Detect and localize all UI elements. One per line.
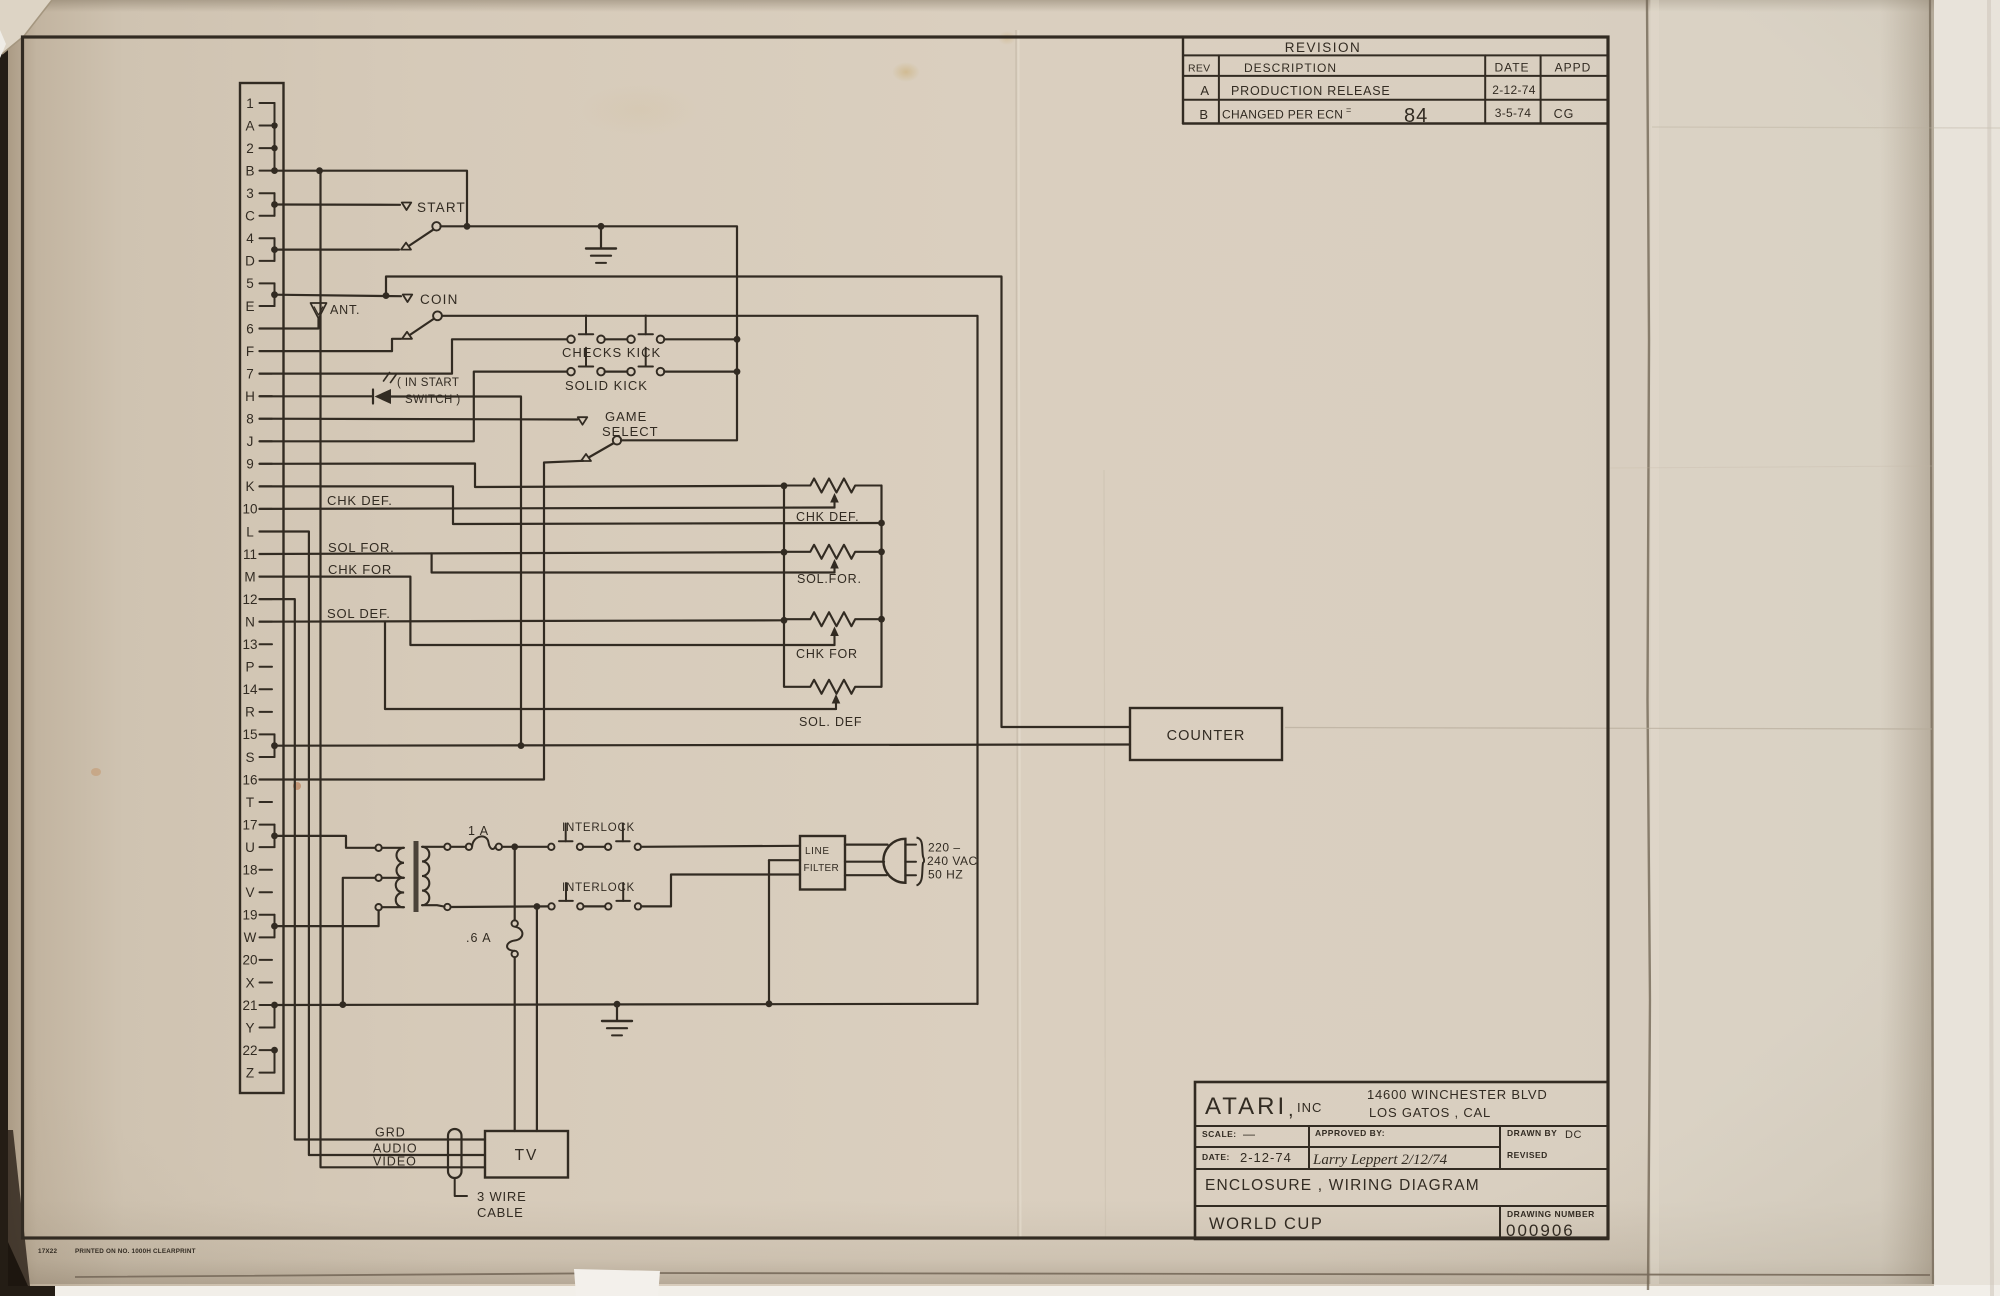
power ground bus: [275, 1004, 978, 1005]
svg-text:5: 5: [246, 276, 254, 291]
svg-text:D: D: [245, 254, 255, 269]
wire pin 3/C to START throw: [275, 203, 401, 206]
svg-text:CHK FOR: CHK FOR: [328, 562, 392, 577]
svg-text:Y: Y: [245, 1020, 254, 1035]
svg-text:,: ,: [1288, 1099, 1294, 1121]
horizontal creases: [1285, 728, 1932, 730]
svg-text:Larry Leppert 2/12/74: Larry Leppert 2/12/74: [1312, 1152, 1448, 1168]
svg-text:CHK DEF.: CHK DEF.: [796, 510, 859, 524]
svg-text:SOL DEF.: SOL DEF.: [327, 606, 391, 621]
node GAME SELECT label marker: [578, 417, 588, 425]
paper right edge: [1930, 0, 1933, 1284]
svg-text:CHANGED PER ECN: CHANGED PER ECN: [1222, 108, 1343, 122]
svg-text:SELECT: SELECT: [602, 424, 659, 439]
wire net B video drop to TV: [321, 171, 486, 1168]
svg-text:2: 2: [246, 141, 254, 156]
svg-text:3: 3: [246, 186, 254, 201]
wire pin 5/E to COIN marker and counter feed: [275, 295, 402, 297]
switch GAME SELECT: [581, 454, 591, 461]
svg-text:SOLID KICK: SOLID KICK: [565, 378, 648, 393]
svg-text:000906: 000906: [1506, 1221, 1575, 1240]
svg-text:22: 22: [242, 1043, 257, 1058]
brace for mains label: [917, 838, 925, 886]
cable grommet: [448, 1129, 462, 1178]
svg-text:14: 14: [242, 682, 258, 697]
svg-text:DATE: DATE: [1494, 61, 1529, 75]
ground at START output: [600, 226, 602, 248]
wire fuse F2 to TV: [514, 957, 516, 1131]
svg-text:REV: REV: [1188, 63, 1211, 75]
svg-text:ENCLOSURE , WIRING DIAGRAM: ENCLOSURE , WIRING DIAGRAM: [1205, 1177, 1480, 1194]
svg-text:CHK FOR: CHK FOR: [796, 647, 858, 661]
svg-text:A: A: [1200, 83, 1209, 98]
svg-text:220 –: 220 –: [928, 841, 961, 855]
wire LED to counter lower feed: [391, 397, 521, 746]
svg-text:R: R: [245, 705, 255, 720]
potentiometer network left rail: [783, 486, 785, 687]
wire pin 4/D to START blade: [275, 249, 400, 251]
svg-text:INTERLOCK: INTERLOCK: [562, 882, 635, 894]
bracket pins 15-S: [274, 734, 276, 757]
svg-text:X: X: [245, 975, 254, 990]
bracket pins 22-Z: [274, 1050, 276, 1073]
node START label marker: [402, 203, 412, 211]
wire SOLID KICK to node: [664, 371, 737, 373]
title block: [1195, 1082, 1608, 1239]
wire coin-net to COUNTER upper: [386, 277, 1130, 728]
svg-text:REVISION: REVISION: [1285, 40, 1362, 55]
wire COIN common to power bus: [442, 316, 978, 1004]
svg-text:K: K: [245, 479, 254, 494]
wire 3 wire cable callout: [455, 1178, 467, 1196]
wire pin 11 to pot left rail: [260, 552, 785, 554]
wire pin 17/U to transformer primary top: [275, 836, 376, 848]
svg-text:A: A: [245, 118, 254, 133]
svg-text:Z: Z: [246, 1065, 254, 1080]
wire pin 11 branch to SOL FOR wiper: [432, 554, 835, 573]
svg-text:V: V: [245, 885, 254, 900]
svg-text:( IN START: ( IN START: [397, 377, 459, 389]
transformer T1 terminals: [375, 845, 381, 851]
svg-text:B: B: [245, 163, 254, 178]
svg-text:PRODUCTION RELEASE: PRODUCTION RELEASE: [1231, 84, 1391, 98]
wire pin L to TV audio drop: [260, 532, 486, 1156]
transformer T1 core: [414, 841, 419, 912]
svg-text:GAME: GAME: [605, 409, 647, 424]
connector J1: [240, 83, 284, 1093]
revision table: [1182, 37, 1184, 124]
svg-text:INTERLOCK: INTERLOCK: [562, 822, 635, 834]
dark bottom-left corner: [8, 1130, 30, 1286]
svg-text:C: C: [245, 209, 255, 224]
switch COIN: [402, 332, 412, 339]
svg-text:DC: DC: [1565, 1129, 1582, 1141]
svg-text:18: 18: [242, 863, 257, 878]
svg-text:U: U: [245, 840, 255, 855]
switch CHECKS KICK: [567, 336, 575, 344]
wires line filter to plug: [845, 843, 888, 845]
wire pin N to pot left rail: [260, 620, 785, 621]
svg-text:N: N: [245, 614, 255, 629]
svg-text:COUNTER: COUNTER: [1167, 728, 1246, 744]
wire pin F to COIN blade: [260, 339, 402, 351]
svg-text:PRINTED ON NO. 1000H CLEARPRIN: PRINTED ON NO. 1000H CLEARPRINT: [75, 1248, 196, 1255]
svg-text:COIN: COIN: [420, 292, 459, 307]
svg-text:APPD: APPD: [1555, 61, 1592, 75]
svg-text:H: H: [245, 389, 255, 404]
fold crease vertical dark: [1647, 0, 1650, 1290]
svg-text:LOS GATOS , CAL: LOS GATOS , CAL: [1369, 1105, 1491, 1120]
svg-text:50 HZ: 50 HZ: [928, 868, 963, 882]
svg-text:20: 20: [242, 953, 257, 968]
counter COUNTER: [1130, 708, 1282, 760]
svg-text:1: 1: [246, 96, 254, 111]
svg-text:11: 11: [243, 547, 257, 562]
plug P1: [883, 839, 905, 883]
wire line filter to bus: [769, 859, 800, 861]
svg-text:17: 17: [242, 817, 257, 832]
svg-text:8: 8: [246, 412, 254, 427]
svg-text:7: 7: [246, 366, 254, 381]
bracket pins 17-U: [274, 825, 276, 848]
svg-text:1 A: 1 A: [468, 824, 489, 838]
svg-text:J: J: [247, 434, 254, 449]
wire pin K to pot right rail: [260, 486, 882, 524]
switch START: [401, 243, 411, 250]
bracket pins 19-W: [274, 915, 276, 938]
svg-text:84: 84: [1404, 105, 1428, 127]
svg-text:3 WIRE: 3 WIRE: [477, 1189, 527, 1204]
transformer T1 primary winding: [382, 847, 404, 849]
bracket pins 4-D: [274, 238, 276, 261]
svg-text:M: M: [244, 569, 255, 584]
svg-text:9: 9: [246, 457, 254, 472]
wire interlock 1 to line filter: [641, 846, 800, 847]
antenna ANT: [260, 319, 319, 329]
white sliver bottom-center: [574, 1269, 660, 1296]
wire net B to START common and GAME SELECT common: [275, 171, 468, 226]
fuse F1 1A: [451, 846, 466, 848]
svg-text:REVISED: REVISED: [1507, 1150, 1548, 1160]
wire pin 15/S to COUNTER lower: [275, 745, 1131, 746]
wire pin 12 to TV ground drop: [260, 599, 486, 1139]
wire START output bus: [441, 226, 738, 440]
svg-text:CABLE: CABLE: [477, 1205, 524, 1220]
svg-text:LINE: LINE: [805, 846, 830, 857]
svg-text:14600 WINCHESTER BLVD: 14600 WINCHESTER BLVD: [1367, 1087, 1548, 1102]
potentiometer CHK DEF: [784, 479, 882, 493]
svg-text:P: P: [245, 660, 254, 675]
wire pin 8 to GAME SELECT marker: [260, 418, 578, 421]
svg-text:.6 A: .6 A: [466, 931, 492, 945]
svg-text:DRAWING NUMBER: DRAWING NUMBER: [1507, 1209, 1595, 1219]
interlock switch 1: [548, 844, 554, 850]
transformer T1 secondary winding: [422, 846, 444, 848]
bracket pins 1-A-2-B: [274, 103, 276, 171]
wire pin 16 to GAME SELECT blade: [260, 461, 584, 780]
svg-text:16: 16: [242, 772, 257, 787]
potentiometer SOL FOR: [784, 545, 882, 559]
svg-text:6: 6: [246, 321, 254, 336]
wire pin 9 to pot left rail: [260, 464, 785, 488]
svg-text:INC: INC: [1297, 1100, 1322, 1115]
svg-text:CG: CG: [1554, 107, 1575, 121]
svg-text:L: L: [246, 524, 254, 539]
svg-text:13: 13: [242, 637, 257, 652]
wire transformer secondary bottom to interlock 2: [451, 905, 549, 908]
top-left folded corner: [0, 0, 52, 54]
interlock switch 2: [548, 903, 554, 909]
svg-text:GRD: GRD: [375, 1126, 406, 1140]
svg-text:T: T: [246, 795, 254, 810]
wire pin J to SOLID KICK: [260, 372, 568, 442]
wire pin M to CHK FOR wiper: [260, 577, 835, 645]
svg-text:VIDEO: VIDEO: [373, 1155, 417, 1169]
svg-text:WORLD CUP: WORLD CUP: [1209, 1215, 1323, 1233]
svg-text:3-5-74: 3-5-74: [1495, 106, 1532, 120]
svg-text:4: 4: [246, 231, 254, 246]
svg-text:FILTER: FILTER: [804, 863, 840, 874]
drawing border frame: [23, 37, 1609, 1238]
diode CR1 (in start switch): [372, 390, 374, 404]
node COIN label marker: [403, 295, 413, 303]
wire pin 19/W to transformer primary bottom: [275, 910, 379, 926]
svg-text:CHK DEF.: CHK DEF.: [327, 493, 393, 508]
svg-text:ANT.: ANT.: [330, 303, 360, 317]
svg-text:21: 21: [242, 998, 257, 1013]
wire interlock 2 to line filter: [641, 875, 800, 907]
LED arrows: [384, 373, 390, 382]
svg-text:S: S: [245, 750, 254, 765]
svg-text:19: 19: [242, 908, 257, 923]
svg-text:=: =: [1346, 105, 1352, 115]
bracket pins 21-Y: [274, 1005, 276, 1028]
svg-text:10: 10: [242, 502, 257, 517]
potentiometer CHK FOR: [784, 612, 882, 626]
svg-text:SOL.FOR.: SOL.FOR.: [797, 572, 862, 586]
bracket pins 3-C: [274, 193, 276, 216]
bottom paper edge: [75, 1273, 1930, 1277]
wire pin 10 to CHK DEF wiper: [260, 508, 835, 509]
svg-text:START: START: [417, 200, 466, 215]
bracket pins 5-E: [274, 283, 276, 306]
svg-text:APPROVED BY:: APPROVED BY:: [1315, 1128, 1385, 1138]
wire transformer primary mid to bus: [343, 878, 376, 1004]
TV: [485, 1131, 568, 1178]
svg-text:TV: TV: [515, 1147, 539, 1164]
svg-text:17X22: 17X22: [38, 1248, 58, 1255]
svg-text:12: 12: [242, 592, 257, 607]
svg-text:F: F: [246, 344, 254, 359]
wire CHECKS KICK to node: [664, 338, 737, 340]
svg-text:E: E: [245, 299, 254, 314]
right rail junction dots: [878, 548, 885, 555]
svg-text:SOL. DEF: SOL. DEF: [799, 715, 862, 729]
svg-text:240 VAC: 240 VAC: [927, 854, 978, 868]
wire transformer tap to TV: [536, 907, 538, 1132]
svg-text:15: 15: [242, 727, 257, 742]
svg-text:DESCRIPTION: DESCRIPTION: [1244, 61, 1337, 75]
svg-text:DATE:: DATE:: [1202, 1152, 1230, 1162]
wire pin H to LED: [260, 395, 373, 397]
svg-text:2-12-74: 2-12-74: [1492, 83, 1535, 97]
switch SOLID KICK: [567, 368, 575, 376]
svg-text:SCALE:: SCALE:: [1202, 1129, 1237, 1139]
svg-text:B: B: [1199, 107, 1208, 122]
wire pin 7 to CHECKS KICK: [260, 339, 568, 373]
wire fuse F1 to interlock 1: [502, 846, 548, 848]
fuse F2 .6A: [514, 847, 516, 921]
svg-text:W: W: [244, 930, 257, 945]
potentiometer SOL DEF: [784, 680, 882, 694]
svg-text:AUDIO: AUDIO: [373, 1142, 418, 1156]
wire pin N branch to SOL DEF wiper: [385, 622, 836, 709]
svg-text:DRAWN BY: DRAWN BY: [1507, 1128, 1557, 1138]
ground at power bus: [616, 1004, 618, 1020]
fold crease vertical light: [1016, 30, 1018, 1240]
line filter FL1: [800, 836, 845, 890]
potentiometer network right rail: [880, 486, 882, 687]
svg-text:ATARI: ATARI: [1205, 1093, 1287, 1120]
svg-text:2-12-74: 2-12-74: [1240, 1150, 1292, 1165]
svg-text:—: —: [1243, 1127, 1256, 1141]
